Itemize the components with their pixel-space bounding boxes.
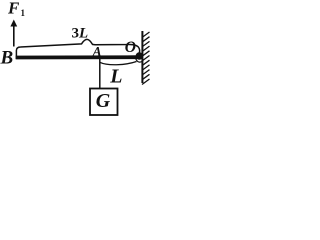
wall hatching <box>142 32 150 85</box>
svg-text:1: 1 <box>21 8 26 18</box>
background <box>0 0 153 121</box>
svg-text:O: O <box>125 39 136 56</box>
svg-text:3: 3 <box>72 26 80 42</box>
svg-text:F: F <box>7 0 20 18</box>
svg-text:L: L <box>78 26 88 42</box>
beam bottom thick edge <box>16 55 137 59</box>
svg-text:L: L <box>109 65 122 87</box>
beam outline (top edge with brace bump, left edge, right rounded cap) <box>16 39 139 59</box>
wall line <box>141 31 143 83</box>
label 3L (distance B to A) <box>72 26 89 42</box>
force arrow F1 (upward) <box>10 20 17 47</box>
dimension line L (A to O, below beam) <box>100 62 137 65</box>
label F1 (force at left end) <box>7 0 26 18</box>
svg-text:B: B <box>0 48 13 69</box>
svg-text:A: A <box>92 44 102 59</box>
hinge lower arc <box>136 59 142 62</box>
weight box <box>90 89 118 116</box>
string from A down to weight <box>99 59 101 89</box>
hinge pin at O <box>136 52 143 59</box>
svg-text:G: G <box>96 90 111 112</box>
